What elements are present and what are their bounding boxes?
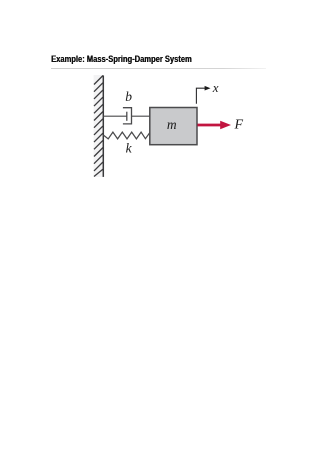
divider rule [51,68,266,69]
svg-text:m: m [167,117,177,132]
force F arrow shaft [198,124,224,127]
wire damper rod right [132,115,150,117]
x axis arrowhead [205,86,211,91]
svg-text:x: x [212,80,219,95]
damper b cylinder [123,108,132,124]
title [51,54,192,65]
wall line [102,75,104,176]
mass m block [150,108,197,145]
svg-text:k: k [126,140,133,155]
svg-text:b: b [125,89,132,104]
wall hatch band tint [94,75,104,177]
svg-text:F: F [234,118,244,133]
force F arrowhead [220,121,231,129]
x axis bracket [196,88,205,104]
wall hatching [94,76,103,177]
damper b piston plate [126,112,128,121]
wire damper rod left [103,115,127,117]
spring k zigzag [103,132,150,139]
